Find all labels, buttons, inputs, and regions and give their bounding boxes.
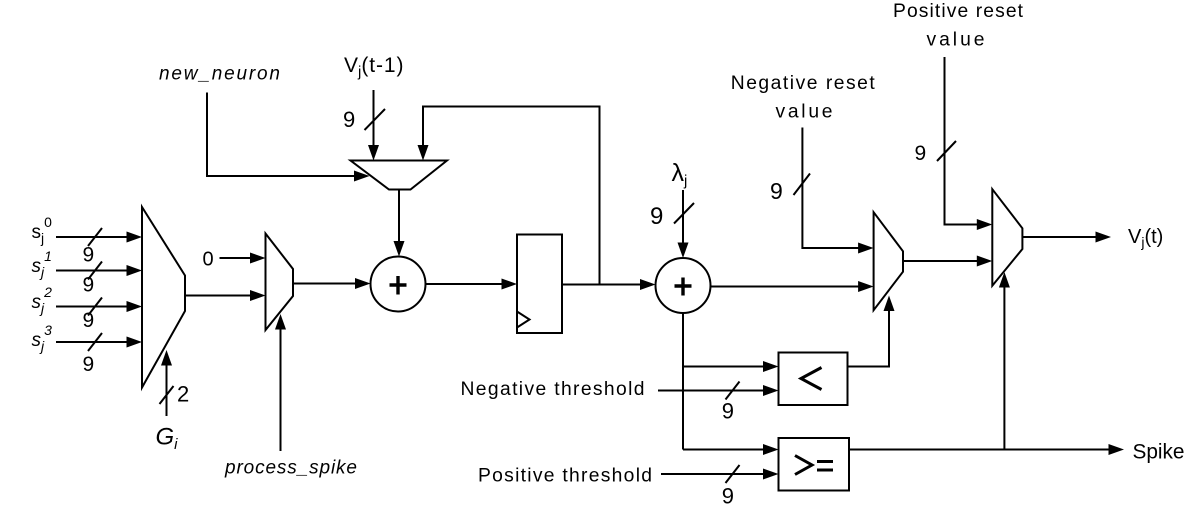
svg-text:0: 0 (203, 249, 214, 271)
wire new_neuron select into M0 (207, 93, 370, 182)
label constant 0 (203, 249, 214, 271)
svg-text:9: 9 (722, 399, 734, 424)
bus width 9 on positive reset value (915, 142, 927, 165)
svg-text:9: 9 (722, 484, 734, 509)
label Positive threshold (478, 466, 652, 487)
svg-text:Vj(t): Vj(t) (1128, 226, 1163, 250)
wire G_i select into M1 (160, 350, 174, 416)
wire s_j^2 input (56, 298, 142, 316)
wire adder A1 output to register (426, 279, 518, 290)
wire positive reset value into M4 (937, 57, 992, 230)
wire feedback from register output into M0 (418, 107, 600, 285)
label Negative reset value (731, 73, 876, 123)
wire GE output to Spike (849, 444, 1124, 455)
comparator LT box (779, 353, 848, 406)
svg-text:Negative threshold: Negative threshold (461, 379, 645, 400)
wire process_spike select into M2 (275, 314, 286, 451)
label new_neuron (159, 64, 280, 85)
svg-text:9: 9 (343, 107, 355, 132)
wire register output to adder A2 (562, 279, 656, 290)
bus width 9 on V_j(t-1) (343, 107, 355, 132)
wire M0 output into adder A1 (394, 190, 405, 257)
wire adder A2 output to M3 (711, 281, 874, 292)
bus width 2 on G_i (177, 382, 189, 407)
mux M1 (input select, 4:1) (142, 207, 185, 388)
wire M2 output to adder A1 (293, 278, 371, 289)
wire LT output to M3 select (848, 296, 895, 367)
bus width 9 on s_j^0 (83, 244, 95, 267)
mux M3 (negative reset select) (874, 212, 903, 310)
bus width 9 on negative reset value (770, 178, 783, 204)
svg-text:value: value (776, 102, 833, 123)
comparator GE box (779, 438, 850, 491)
svg-text:9: 9 (83, 353, 95, 376)
svg-text:Positive threshold: Positive threshold (478, 466, 652, 487)
wire branch into LT comparator top input (683, 361, 779, 372)
svg-text:Positive reset: Positive reset (893, 1, 1024, 22)
wire V_j(t-1) into M0 (365, 90, 386, 161)
label G_i (156, 424, 179, 454)
svg-text:9: 9 (83, 244, 95, 267)
svg-text:Negative reset: Negative reset (731, 73, 876, 94)
wire negative threshold into LT comparator (658, 382, 779, 400)
label lambda_j (672, 159, 688, 190)
bus width 9 on s_j^3 (83, 353, 95, 376)
wire s_j^3 input (56, 333, 142, 351)
svg-text:new_neuron: new_neuron (159, 64, 280, 85)
wire branch into GE comparator top input (683, 444, 779, 455)
label Spike output (1133, 441, 1185, 464)
mux M0 (new_neuron select, top) (351, 161, 448, 190)
label s_j^2 (32, 284, 53, 316)
wire lambda_j into adder A2 (674, 190, 694, 258)
wire adder A2 down branch (682, 313, 684, 450)
svg-text:9: 9 (83, 274, 95, 297)
wire s_j^0 input (56, 228, 142, 246)
label process_spike (224, 458, 357, 479)
svg-text:2: 2 (177, 382, 189, 407)
wire M1 output to M2 (185, 290, 266, 301)
wire s_j^1 input (56, 262, 142, 280)
bus width 9 on positive threshold (722, 484, 734, 509)
adder A2 (656, 258, 711, 313)
label s_j^1 (32, 248, 52, 280)
label V_j(t) output (1128, 226, 1163, 250)
bus width 9 on lambda_j (650, 203, 663, 230)
wire M4 output to V_j(t) (1022, 232, 1111, 243)
svg-text:9: 9 (770, 178, 783, 204)
label s_j^0 (32, 214, 53, 246)
mux M4 (positive reset select) (992, 189, 1022, 286)
bus width 9 on s_j^1 (83, 274, 95, 297)
label Negative threshold (461, 379, 645, 400)
wire positive threshold into GE comparator (661, 465, 779, 483)
svg-text:value: value (927, 30, 985, 51)
svg-text:Vj(t-1): Vj(t-1) (344, 54, 404, 81)
wire M3 output to M4 (903, 256, 992, 267)
label Positive reset value (893, 1, 1024, 51)
bus width 9 on negative threshold (722, 399, 734, 424)
bus width 9 on s_j^2 (83, 309, 95, 332)
adder A1 (371, 257, 426, 312)
svg-text:9: 9 (915, 142, 927, 165)
wire negative reset value into M3 (794, 128, 874, 254)
wire GE output branch up to M4 select (999, 272, 1010, 450)
label s_j^3 (32, 322, 53, 354)
svg-text:9: 9 (83, 309, 95, 332)
svg-text:process_spike: process_spike (224, 458, 357, 479)
mux M2 (0 / spike select) (266, 234, 294, 331)
wire constant 0 into M2 (220, 253, 266, 264)
register REG (517, 235, 562, 334)
label V_j(t-1) (344, 54, 404, 81)
svg-text:Spike: Spike (1133, 441, 1185, 464)
svg-text:9: 9 (650, 203, 663, 230)
